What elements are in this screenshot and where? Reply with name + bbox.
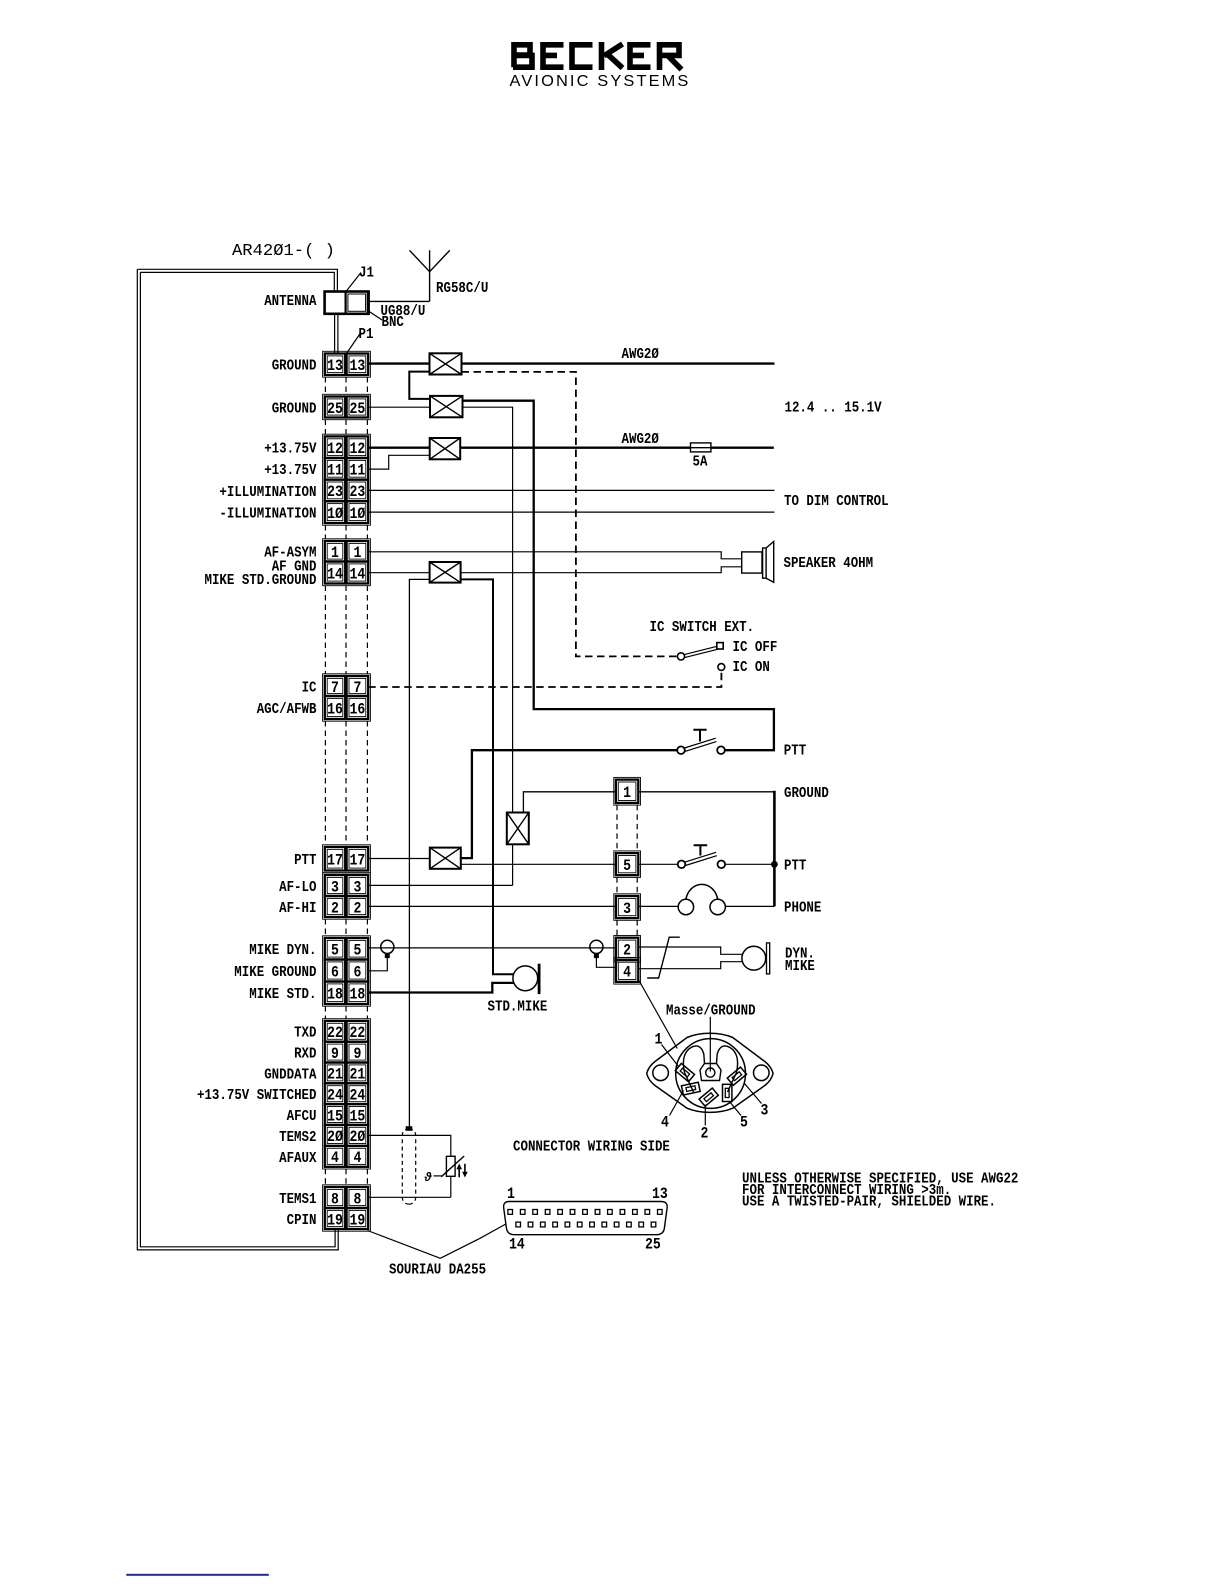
svg-text:AF-HI: AF-HI <box>279 900 316 917</box>
svg-text:24: 24 <box>350 1087 366 1105</box>
svg-text:3: 3 <box>761 1102 769 1120</box>
svg-text:GNDDATA: GNDDATA <box>264 1066 316 1083</box>
wire handmike pin5 to S3 <box>638 863 677 865</box>
svg-text:AFAUX: AFAUX <box>279 1150 316 1167</box>
svg-text:TEMS1: TEMS1 <box>279 1191 316 1208</box>
switch S2 right contact <box>717 746 725 754</box>
P1 pin group outline <box>323 394 371 419</box>
svg-text:BNC: BNC <box>382 314 404 331</box>
svg-text:15: 15 <box>350 1107 366 1125</box>
svg-text:11: 11 <box>327 462 343 480</box>
svg-text:22: 22 <box>327 1024 343 1042</box>
svg-text:TEMS2: TEMS2 <box>279 1129 316 1146</box>
svg-text:16: 16 <box>327 700 343 718</box>
coax wire RG58C/U <box>369 300 429 302</box>
wire pin13 to ferrite FB1 (AWG20) <box>368 362 429 364</box>
P1 pin 5 (MIKE DYN.) <box>325 938 368 960</box>
switch S3 lever <box>685 852 717 865</box>
svg-text:MIKE STD.GROUND: MIKE STD.GROUND <box>205 572 317 589</box>
handmike pin 2 <box>614 936 641 963</box>
switch S1 (IC ext) pivot contact <box>677 653 684 660</box>
probe shield terminal <box>406 1126 413 1131</box>
jack contact at handmike pin2 <box>590 940 603 953</box>
svg-text:GROUND: GROUND <box>272 400 317 417</box>
svg-text:24: 24 <box>327 1087 343 1105</box>
svg-text:RXD: RXD <box>294 1046 316 1063</box>
P1 leader + label <box>347 333 361 354</box>
wire FB4 to speaker <box>461 567 742 573</box>
wire pin1 AF-ASYM to speaker <box>368 552 742 559</box>
svg-text:GROUND: GROUND <box>272 358 317 375</box>
svg-text:AFCU: AFCU <box>287 1108 317 1125</box>
switch S3 (handmike PTT) left contact <box>678 861 686 869</box>
svg-text:2Ø: 2Ø <box>350 1128 366 1146</box>
DIN insert crown <box>683 1046 737 1092</box>
svg-text:2: 2 <box>701 1125 709 1143</box>
svg-text:13: 13 <box>350 357 366 375</box>
svg-text:5: 5 <box>623 857 631 875</box>
wire pin14 AF GND to ferrite FB4 <box>368 572 429 574</box>
P1 pin 17 (PTT) <box>325 847 368 871</box>
svg-text:AVIONIC SYSTEMS: AVIONIC SYSTEMS <box>510 73 691 90</box>
P1 pin 13 (GROUND) <box>325 354 368 376</box>
svg-text:CPIN: CPIN <box>287 1212 317 1229</box>
svg-text:IC SWITCH EXT.: IC SWITCH EXT. <box>650 619 755 636</box>
svg-text:MIKE: MIKE <box>785 958 815 975</box>
shield loop under FB4, right branch down to std mike <box>461 579 514 974</box>
svg-text:1: 1 <box>655 1031 663 1049</box>
P1 pin 20 (TEMS2) <box>325 1125 368 1146</box>
leader from handmike pin4 to connector face <box>639 981 677 1049</box>
wire FB6 bottom to AF-LO <box>512 844 514 885</box>
svg-text:SPEAKER 4OHM: SPEAKER 4OHM <box>784 555 874 572</box>
svg-text:7: 7 <box>331 679 339 697</box>
P1 pin group outline <box>323 873 371 919</box>
P1 pin group outline <box>323 674 371 721</box>
BECKER logo <box>513 42 682 70</box>
svg-text:IC: IC <box>302 679 317 696</box>
svg-text:6: 6 <box>331 963 339 981</box>
P1 pin 14 (AF GND) <box>325 562 368 584</box>
thermistor RT1 <box>441 1156 464 1177</box>
antenna connector J1 (BNC) <box>325 291 370 316</box>
switch S3 handle <box>694 845 708 855</box>
svg-text:11: 11 <box>350 462 366 480</box>
P1 pin 21 (GNDDATA) <box>325 1063 368 1084</box>
D-sub pins <box>508 1210 513 1215</box>
P1 pin 22 (TXD) <box>325 1021 368 1042</box>
svg-text:J1: J1 <box>359 265 374 282</box>
headphone symbol <box>678 884 725 914</box>
DIN face pin 4 slot <box>681 1082 700 1095</box>
svg-text:TO DIM CONTROL: TO DIM CONTROL <box>784 493 889 510</box>
svg-text:2Ø: 2Ø <box>327 1128 343 1146</box>
P1 pin 6 (MIKE GROUND) <box>325 960 368 982</box>
ferrite FB4 <box>430 562 461 583</box>
svg-text:25: 25 <box>350 400 366 418</box>
up/down arrows <box>459 1164 465 1178</box>
P1 pin group outline <box>323 351 371 377</box>
svg-text:2: 2 <box>623 942 631 960</box>
svg-text:IC ON: IC ON <box>733 659 770 676</box>
svg-text:2: 2 <box>331 899 339 917</box>
ferrite FB2 <box>430 396 463 417</box>
svg-text:AR42Ø1-( ): AR42Ø1-( ) <box>232 241 335 260</box>
svg-text:PTT: PTT <box>784 858 806 875</box>
svg-text:ANTENNA: ANTENNA <box>264 293 316 310</box>
handmike pin 4 <box>614 958 641 985</box>
ferrite FB1 <box>430 353 462 374</box>
svg-text:AF-LO: AF-LO <box>279 879 316 896</box>
svg-text:SOURIAU DA255: SOURIAU DA255 <box>389 1262 486 1279</box>
P1 pin 10 (-ILLUMINATION) <box>325 501 368 523</box>
svg-text:4: 4 <box>661 1114 669 1132</box>
ferrite FB6 (vertical, ground lead) <box>507 813 529 845</box>
svg-text:5: 5 <box>353 942 361 960</box>
P1 pin 16 (AGC/AFWB) <box>325 696 368 719</box>
wire MIKE DYN pin5 to handmike pin2 <box>368 947 616 949</box>
wire handmike pin1 to ground bus <box>638 791 774 793</box>
svg-text:+13.75V SWITCHED: +13.75V SWITCHED <box>197 1087 317 1104</box>
junction dot <box>771 861 778 868</box>
svg-text:4: 4 <box>623 964 631 982</box>
svg-text:21: 21 <box>350 1066 366 1084</box>
DIN face pin 3 slot <box>727 1067 746 1085</box>
svg-text:14: 14 <box>509 1236 525 1254</box>
svg-text:ϑ: ϑ <box>424 1170 433 1184</box>
wire jack sleeve to handmike pin4 <box>596 958 616 967</box>
svg-text:18: 18 <box>350 986 366 1004</box>
svg-text:PTT: PTT <box>784 743 806 760</box>
P1 pin 24 (+13.75V SWITCHED) <box>325 1083 368 1104</box>
std mike symbol <box>513 964 541 994</box>
svg-text:1Ø: 1Ø <box>350 505 366 523</box>
DIN barrel circle <box>676 1039 746 1109</box>
P1 pin group outline <box>323 1019 371 1169</box>
wire pin23 +ILLUMINATION to dim control <box>368 489 774 491</box>
P1 pin 4 (AFAUX) <box>325 1146 368 1167</box>
svg-text:1: 1 <box>507 1185 515 1203</box>
svg-text:4: 4 <box>353 1149 361 1167</box>
DIN face pin 3 leader+label <box>745 1084 762 1104</box>
UG88/U BNC leader + labels <box>367 310 382 320</box>
wire pin25 to ferrite FB2 <box>368 406 430 408</box>
svg-text:25: 25 <box>327 400 343 418</box>
P1 pin 15 (AFCU) <box>325 1104 368 1125</box>
wire MIKE STD pin18 to std mike <box>368 983 513 993</box>
svg-text:13: 13 <box>327 357 343 375</box>
svg-text:12: 12 <box>350 440 366 458</box>
P1 pin 2 (AF-HI) <box>325 896 368 917</box>
svg-text:+ILLUMINATION: +ILLUMINATION <box>219 484 316 501</box>
wire TEMS1 pin8 <box>368 1196 451 1198</box>
svg-text:19: 19 <box>327 1211 343 1229</box>
svg-text:8: 8 <box>353 1190 361 1208</box>
svg-text:14: 14 <box>350 565 366 583</box>
ferrite FB3 <box>430 438 461 459</box>
dashed shield wire FB1 to IC switch <box>462 372 679 657</box>
svg-text:MIKE STD.: MIKE STD. <box>249 986 316 1003</box>
P1 pin group outline <box>323 539 371 586</box>
J1 leader + label <box>346 273 361 292</box>
jack contact at mike dyn <box>381 940 394 953</box>
svg-text:1Ø: 1Ø <box>327 505 343 523</box>
P1 pin 7 (IC) <box>325 676 368 697</box>
DIN face pin 2 slot <box>699 1088 718 1106</box>
svg-text:IC OFF: IC OFF <box>733 639 778 656</box>
svg-text:P1: P1 <box>359 326 374 343</box>
DIN face pin 2 leader+label <box>704 1105 706 1126</box>
twisted pair mark <box>647 937 680 978</box>
svg-text:9: 9 <box>331 1045 339 1063</box>
wire pin11 jog into FB3 <box>368 455 430 469</box>
svg-text:17: 17 <box>350 852 366 870</box>
wire fuse to supply <box>711 447 774 449</box>
DIN face pin 1 leader+label <box>662 1045 679 1067</box>
svg-text:18: 18 <box>327 986 343 1004</box>
leader Masse to center pin <box>709 1017 711 1072</box>
temperature probe capsule (dashed) <box>402 1129 415 1205</box>
svg-text:12: 12 <box>327 440 343 458</box>
svg-text:5: 5 <box>331 942 339 960</box>
svg-text:MIKE GROUND: MIKE GROUND <box>234 964 316 981</box>
wire handmike pin3 to phones <box>638 905 678 907</box>
contact IC OFF <box>717 643 723 649</box>
svg-text:22: 22 <box>350 1024 366 1042</box>
svg-text:+13.75V: +13.75V <box>264 462 316 479</box>
handmike pin 1 <box>614 777 641 805</box>
svg-text:1: 1 <box>623 784 631 802</box>
P1 pin 23 (+ILLUMINATION) <box>325 480 368 502</box>
speaker symbol <box>742 542 774 583</box>
svg-text:STD.MIKE: STD.MIKE <box>488 999 548 1016</box>
svg-text:2: 2 <box>353 899 361 917</box>
wire pin10 -ILLUMINATION to dim control <box>368 511 774 513</box>
svg-text:8: 8 <box>331 1190 339 1208</box>
switch S2 lever <box>684 738 716 751</box>
DIN center pin <box>706 1068 715 1077</box>
svg-text:25: 25 <box>645 1236 661 1254</box>
P1 pin 19 (CPIN) <box>325 1208 368 1229</box>
svg-text:7: 7 <box>353 679 361 697</box>
contact IC ON <box>718 664 725 671</box>
P1 pin 18 (MIKE STD.) <box>325 982 368 1005</box>
svg-text:14: 14 <box>327 565 343 583</box>
svg-text:3: 3 <box>623 900 631 918</box>
handmike body dashed lines <box>617 805 637 936</box>
P1 pin 3 (AF-LO) <box>325 875 368 896</box>
leader P1 to SOURIAU and D-sub <box>368 1224 507 1258</box>
unit outline box (double line) <box>137 269 338 1250</box>
svg-text:MIKE DYN.: MIKE DYN. <box>249 942 316 959</box>
shield loop under FB4, left branch down to temp probe <box>409 579 429 1126</box>
dashed wire pin7 IC to IC ON contact <box>368 671 721 687</box>
P1 pin group outline <box>323 936 371 1006</box>
wire phones to ground bus <box>725 905 774 907</box>
svg-text:1: 1 <box>353 544 361 562</box>
wire pin12 to ferrite FB3 (AWG20 supply) <box>368 447 430 449</box>
svg-text:15: 15 <box>327 1107 343 1125</box>
DIN face pin 1 slot <box>675 1063 694 1081</box>
svg-text:AWG2Ø: AWG2Ø <box>622 431 659 448</box>
switch S3 right contact <box>718 861 726 869</box>
footer rule (blue) <box>126 1574 268 1576</box>
svg-text:TXD: TXD <box>294 1025 316 1042</box>
P1 connector body dashed lines <box>325 377 367 1185</box>
wire MIKE GROUND pin6 to jack sleeve <box>368 958 387 971</box>
P1 pin 25 (GROUND) <box>325 397 368 418</box>
svg-text:3: 3 <box>353 878 361 896</box>
svg-text:GROUND: GROUND <box>784 785 829 802</box>
mounting hole left <box>653 1065 669 1081</box>
P1 pin group outline <box>323 845 371 873</box>
P1 pin 11 (+13.75V) <box>325 458 368 480</box>
wire AF-HI pin2 to phone pin3 <box>368 905 616 907</box>
DIN face pin 5 slot <box>723 1084 732 1101</box>
wire DIN pin1 ground to FB6 top <box>523 792 615 813</box>
svg-text:4: 4 <box>331 1149 339 1167</box>
svg-text:21: 21 <box>327 1066 343 1084</box>
svg-text:+13.75V: +13.75V <box>264 441 316 458</box>
switch S2 (PTT) pivot contact <box>677 746 685 754</box>
wire FB2 lower branch down to AF-LO ferrite <box>463 407 513 812</box>
svg-text:RG58C/U: RG58C/U <box>436 280 488 297</box>
svg-text:23: 23 <box>350 483 366 501</box>
DIN center boss <box>700 1064 721 1081</box>
wire AF-LO pin3 <box>368 884 512 886</box>
handmike pin 3 <box>614 894 641 921</box>
D-sub 25 shell <box>504 1202 668 1235</box>
wire FB1 jog to FB2 <box>409 372 430 399</box>
antenna symbol <box>410 250 450 301</box>
svg-text:19: 19 <box>350 1211 366 1229</box>
wire FB3 to fuse <box>460 447 690 449</box>
P1 pin 12 (+13.75V) <box>325 436 368 458</box>
wire pin17 PTT to ferrite FB5 <box>368 858 430 860</box>
wire FB1 to right (AWG20 ground lead) <box>462 362 775 364</box>
wire FB5 to handmike pin5 <box>461 863 616 865</box>
svg-text:17: 17 <box>327 852 343 870</box>
P1 pin 9 (RXD) <box>325 1042 368 1063</box>
svg-text:-ILLUMINATION: -ILLUMINATION <box>219 506 316 523</box>
svg-text:PHONE: PHONE <box>784 900 821 917</box>
svg-text:CONNECTOR WIRING SIDE: CONNECTOR WIRING SIDE <box>513 1139 670 1156</box>
svg-text:3: 3 <box>331 878 339 896</box>
wire FB2 upper branch to PTT bus <box>463 401 774 751</box>
svg-text:PTT: PTT <box>294 852 316 869</box>
ferrite FB5 <box>430 848 461 869</box>
svg-text:6: 6 <box>353 963 361 981</box>
svg-text:12.4 .. 15.1V: 12.4 .. 15.1V <box>785 400 882 417</box>
wire FB5 up to PTT switch S2 <box>461 750 678 858</box>
svg-text:AWG2Ø: AWG2Ø <box>622 346 659 363</box>
svg-text:23: 23 <box>327 483 343 501</box>
P1 pin 1 (AF-ASYM) <box>325 541 368 562</box>
DIN face pin 4 leader+label <box>670 1091 684 1116</box>
svg-text:5: 5 <box>740 1114 748 1132</box>
P1 pin group outline <box>323 434 371 525</box>
svg-text:AGC/AFWB: AGC/AFWB <box>257 701 317 718</box>
handmike pin 5 <box>614 851 641 878</box>
wire S3 to junction <box>725 863 774 865</box>
wire TEMS2 pin20 to thermistor <box>368 1135 451 1156</box>
P1 pin group outline <box>323 1185 371 1231</box>
wire thermistor to TEMS1 <box>450 1176 452 1197</box>
DIN connector flange <box>647 1033 773 1112</box>
svg-text:16: 16 <box>350 700 366 718</box>
P1 pin 8 (TEMS1) <box>325 1187 368 1208</box>
switch S1 lever <box>684 646 718 657</box>
svg-text:1: 1 <box>331 544 339 562</box>
svg-text:9: 9 <box>353 1045 361 1063</box>
svg-text:5A: 5A <box>693 454 708 471</box>
dyn mike symbol <box>638 947 742 954</box>
switch S2 handle <box>693 730 706 742</box>
svg-text:USE A TWISTED-PAIR, SHIELDED W: USE A TWISTED-PAIR, SHIELDED WIRE. <box>742 1194 996 1211</box>
mounting hole right <box>754 1065 770 1081</box>
DIN face pin 5 leader+label <box>730 1102 742 1116</box>
fuse 5A <box>691 443 711 452</box>
svg-text:13: 13 <box>652 1185 668 1203</box>
